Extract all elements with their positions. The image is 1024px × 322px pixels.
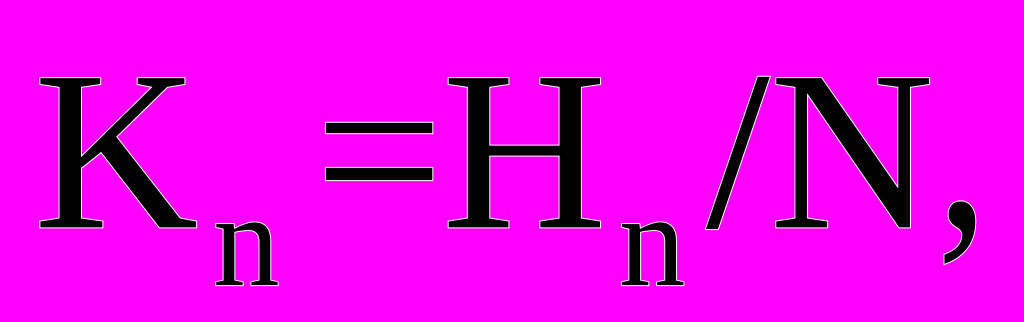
svg-text:n: n bbox=[213, 166, 280, 314]
svg-text:H: H bbox=[442, 25, 607, 277]
svg-text:n: n bbox=[619, 166, 686, 314]
svg-text:,: , bbox=[937, 9, 989, 279]
svg-text:K: K bbox=[34, 25, 199, 277]
svg-text:N: N bbox=[770, 25, 935, 277]
